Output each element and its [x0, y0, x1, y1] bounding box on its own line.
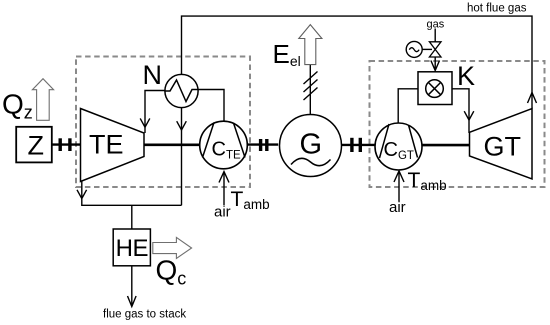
dashed boundary TE subsystem: [76, 57, 250, 188]
air inlet arrow C_GT: [398, 173, 400, 202]
valve actuator motor: [406, 41, 422, 57]
flow arrow down into TE: [140, 118, 150, 127]
flow arrow down on N bottom line: [177, 121, 187, 130]
compressor C_TE: [200, 121, 248, 169]
svg-text:air: air: [214, 204, 231, 221]
shaft TE to C_TE: [144, 144, 200, 147]
heater N circle with zigzag: [165, 74, 198, 107]
wire pipe to HE: [131, 205, 133, 229]
compressor C_GT: [375, 123, 422, 170]
turbine TE: [81, 109, 145, 182]
svg-text:Z: Z: [28, 131, 45, 161]
dashed boundary GT subsystem: [370, 61, 545, 187]
wire gas to valve: [434, 29, 436, 42]
hollow arrow Q_z: [32, 79, 53, 121]
combustor K box: [418, 72, 452, 105]
coupling G to C_GT: [342, 144, 376, 146]
svg-text:G: G: [300, 129, 323, 161]
wire G electrical output with slashes: [309, 65, 311, 115]
gas turbine GT: [470, 109, 533, 179]
wire TE exhaust to pipe: [82, 182, 182, 206]
combustor symbol circle-X: [426, 80, 444, 98]
flow arrow up on hot flue gas line: [528, 93, 537, 104]
svg-text:hot flue gas: hot flue gas: [467, 3, 527, 15]
wire N to TE inlet: [145, 91, 165, 134]
wire N to C_TE top: [198, 90, 224, 122]
heat exchanger HE box: [113, 229, 150, 266]
wire hot flue gas: GT to N heater via top: [182, 16, 533, 109]
coupling Z to TE: [52, 143, 81, 145]
svg-text:TE: TE: [89, 129, 124, 159]
wire valve to K with arrow: [434, 57, 436, 69]
svg-text:flue gas to stack: flue gas to stack: [103, 309, 186, 321]
source Z box: [16, 127, 52, 163]
shaft C_GT to GT: [422, 144, 470, 147]
air inlet arrow C_TE: [223, 173, 225, 205]
svg-text:GT: GT: [484, 132, 522, 162]
wire K to GT with arrow: [452, 89, 469, 133]
gas valve: [429, 42, 441, 50]
flow arrow down on TE exhaust: [77, 190, 87, 199]
svg-text:N: N: [143, 60, 163, 90]
wire K to C_GT: [398, 89, 418, 123]
hollow arrow Q_c: [153, 237, 192, 258]
hollow arrow E_el: [299, 25, 322, 65]
wire motor to valve: [422, 48, 432, 50]
wire HE to stack with arrow: [131, 266, 133, 305]
svg-text:K: K: [457, 61, 475, 91]
svg-text:air: air: [389, 199, 406, 216]
wire N bottom down to condensate pipe: [181, 108, 183, 206]
svg-text:HE: HE: [116, 235, 148, 262]
generator G: [280, 115, 342, 177]
coupling C_TE to G: [247, 143, 278, 145]
